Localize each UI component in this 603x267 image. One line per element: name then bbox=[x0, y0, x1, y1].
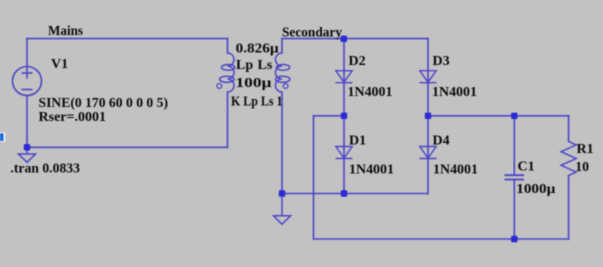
junction secondary top rail / D2 bbox=[341, 36, 347, 42]
voltage source V1 bbox=[13, 67, 42, 96]
phase dot primary bbox=[217, 84, 222, 89]
wire left drop to bottom rail bbox=[313, 116, 315, 239]
junction D1 bottom bbox=[341, 190, 347, 196]
svg-text:D1: D1 bbox=[349, 133, 366, 148]
svg-text:10: 10 bbox=[575, 160, 589, 175]
wire bottom-left rail bbox=[27, 146, 228, 148]
svg-text:Secondary: Secondary bbox=[282, 26, 342, 41]
svg-text:1N4001: 1N4001 bbox=[432, 85, 477, 100]
wire primary bottom lead bbox=[227, 92, 229, 147]
svg-text:Ls: Ls bbox=[258, 58, 273, 73]
junction C1 top bbox=[511, 113, 517, 119]
svg-text:.tran 0.0833: .tran 0.0833 bbox=[10, 161, 80, 176]
wire top rail Mains bbox=[27, 38, 228, 40]
junction C1 bottom bbox=[511, 236, 517, 242]
svg-text:R1: R1 bbox=[577, 142, 594, 157]
wire V1 bottom lead bbox=[26, 96, 28, 148]
junction D3-D4 node bbox=[425, 113, 431, 119]
svg-text:Mains: Mains bbox=[48, 24, 84, 39]
wire C1 top lead bbox=[513, 116, 515, 175]
wire primary top lead bbox=[227, 39, 229, 53]
wire R1 top lead bbox=[568, 116, 570, 142]
capacitor C1 bbox=[505, 175, 525, 179]
svg-text:C1: C1 bbox=[518, 159, 535, 174]
ground under secondary bbox=[274, 194, 291, 225]
inductor Ls secondary coil bbox=[276, 53, 290, 92]
inductor Lp primary coil bbox=[220, 53, 235, 92]
svg-text:0.826µ: 0.826µ bbox=[236, 42, 279, 57]
diode D1 bbox=[336, 147, 353, 159]
svg-text:V1: V1 bbox=[51, 57, 68, 72]
wire top-right rail bbox=[282, 38, 428, 40]
wire D3 column bbox=[427, 39, 429, 116]
wire R1 bottom lead bbox=[568, 176, 570, 240]
diode D3 bbox=[420, 71, 437, 83]
wire bottom output rail bbox=[314, 238, 569, 240]
wire secondary top lead bbox=[281, 39, 283, 53]
ground under V1 bbox=[19, 147, 36, 162]
svg-text:K Lp Ls 1: K Lp Ls 1 bbox=[231, 95, 283, 110]
junction D2-D1 node bbox=[341, 113, 347, 119]
wire secondary bottom lead bbox=[281, 92, 283, 194]
wire D4 column bbox=[427, 116, 429, 194]
wire D1 column bbox=[343, 116, 345, 194]
wire V1 top lead bbox=[26, 39, 28, 67]
svg-text:1N4001: 1N4001 bbox=[433, 162, 478, 177]
wire mid rail secondary bottom to D4 bbox=[282, 193, 428, 195]
junction secondary bottom / ground bbox=[279, 190, 285, 196]
wire jog left from D2-D1 node bbox=[314, 115, 345, 117]
diode D2 bbox=[336, 71, 353, 83]
phase dot secondary bbox=[283, 84, 288, 89]
svg-text:1000µ: 1000µ bbox=[516, 182, 555, 197]
svg-text:Lp: Lp bbox=[236, 58, 253, 73]
svg-text:D4: D4 bbox=[433, 133, 450, 148]
svg-text:D2: D2 bbox=[349, 54, 366, 69]
wire D2 column bbox=[343, 39, 345, 116]
svg-text:100µ: 100µ bbox=[236, 76, 272, 91]
left edge selection marker bbox=[0, 132, 5, 142]
wire positive output rail bbox=[428, 115, 569, 117]
diode D4 bbox=[420, 147, 437, 159]
resistor R1 bbox=[561, 142, 576, 176]
svg-text:1N4001: 1N4001 bbox=[348, 85, 393, 100]
wire C1 bottom lead bbox=[513, 180, 515, 239]
svg-text:Rser=.0001: Rser=.0001 bbox=[39, 110, 107, 125]
junction V1 bottom bbox=[24, 144, 30, 150]
svg-text:D3: D3 bbox=[433, 54, 450, 69]
svg-text:1N4001: 1N4001 bbox=[349, 162, 394, 177]
svg-text:SINE(0 170 60 0 0 0 5): SINE(0 170 60 0 0 0 5) bbox=[39, 96, 169, 111]
